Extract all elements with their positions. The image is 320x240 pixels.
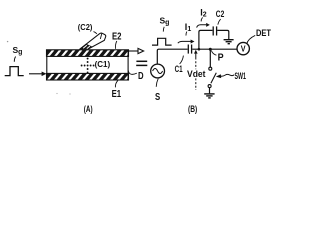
stray speck	[69, 93, 70, 94]
dotted field cross (C1)	[81, 58, 95, 74]
pulse waveform Sg	[152, 38, 172, 45]
ground under switch	[204, 94, 214, 98]
stray speck	[7, 41, 8, 42]
AC source S	[151, 64, 165, 78]
svg-text:Vdet: Vdet	[187, 69, 206, 79]
node P dot	[209, 48, 212, 51]
svg-text:P: P	[218, 52, 224, 63]
main wire C1 to voltmeter	[192, 48, 237, 50]
crystal left edge	[46, 50, 48, 80]
wire C2 to ground corner	[217, 30, 229, 39]
svg-text:(C1): (C1)	[95, 59, 111, 69]
svg-text:(A): (A)	[84, 104, 93, 115]
switch SW1 top contact	[209, 67, 212, 70]
label D	[128, 70, 144, 82]
equals mark (light)	[136, 61, 147, 65]
junction dot	[198, 48, 201, 51]
capacitor C1	[188, 45, 191, 54]
input arrow	[29, 72, 47, 77]
svg-text:D: D	[138, 70, 144, 82]
electrode E2 top bar	[47, 50, 131, 57]
svg-text:C2: C2	[216, 9, 225, 19]
svg-text:E2: E2	[112, 30, 122, 42]
label C2	[216, 9, 225, 25]
electrode E1 bottom bar	[47, 73, 131, 80]
voltmeter DET	[237, 42, 249, 54]
svg-text:(B): (B)	[188, 104, 197, 115]
branch wire up to C2	[199, 30, 213, 49]
label S	[155, 79, 160, 103]
wire: corner from source to C1	[157, 49, 187, 64]
label E2	[112, 30, 122, 48]
switch wire from P	[209, 49, 211, 67]
Vdet measure arrow (dashed)	[194, 50, 198, 90]
switch bottom contact	[208, 85, 211, 88]
capacitor C2	[213, 26, 216, 35]
current arrow I2	[197, 7, 210, 27]
svg-text:DET: DET	[256, 28, 271, 39]
current arrow I1	[178, 22, 195, 44]
svg-text:C1: C1	[175, 64, 183, 74]
pulse waveform Sg	[5, 67, 24, 76]
label P	[211, 51, 223, 64]
switch arm	[211, 73, 216, 84]
ground under C2	[224, 40, 234, 44]
signal label Sg	[13, 45, 23, 62]
crystal right edge	[127, 50, 129, 80]
label C1	[175, 56, 184, 74]
stray speck	[56, 93, 57, 94]
label E1	[112, 80, 122, 99]
svg-text:S: S	[155, 92, 160, 103]
svg-text:SW1: SW1	[235, 71, 247, 82]
label DET with leader	[247, 28, 271, 44]
svg-text:V: V	[241, 44, 246, 54]
svg-text:E1: E1	[112, 88, 122, 100]
signal label Sg	[160, 15, 170, 31]
label (C2)	[78, 22, 97, 34]
probe C2 body	[80, 33, 106, 49]
label SW1 with leader	[216, 71, 247, 82]
output arrow (open head)	[129, 48, 144, 53]
svg-text:(C2): (C2)	[78, 22, 93, 32]
wire to ground	[209, 88, 211, 94]
